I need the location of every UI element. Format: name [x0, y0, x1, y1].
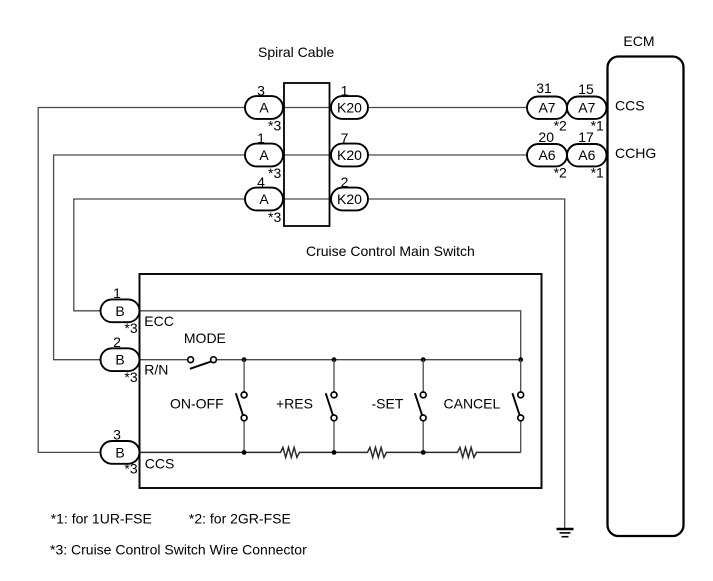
- connector K20 pin2: [331, 188, 368, 211]
- connector K20 pin7: [331, 144, 368, 167]
- svg-text:A: A: [259, 191, 269, 207]
- svg-text:17: 17: [578, 129, 594, 145]
- junction dot CCS col1: [242, 450, 247, 455]
- junction dot R/N col2: [332, 357, 337, 362]
- junction dot R/N col1: [242, 357, 247, 362]
- svg-text:*1: *1: [591, 165, 604, 181]
- svg-text:CCHG: CCHG: [615, 145, 656, 161]
- svg-text:15: 15: [578, 81, 594, 97]
- svg-text:2: 2: [341, 174, 349, 190]
- svg-text:CCS: CCS: [145, 456, 175, 472]
- svg-text:*3: *3: [268, 118, 281, 134]
- svg-text:*1: for 1UR-FSE: *1: for 1UR-FSE: [51, 511, 152, 527]
- ECM box: [608, 57, 684, 537]
- svg-text:Spiral Cable: Spiral Cable: [258, 44, 334, 60]
- svg-text:*2: *2: [554, 165, 567, 181]
- svg-text:31: 31: [536, 80, 552, 96]
- connector A6 pin17 (1UR): [567, 144, 607, 166]
- svg-text:A: A: [259, 100, 269, 116]
- svg-text:*2: for 2GR-FSE: *2: for 2GR-FSE: [189, 511, 291, 527]
- svg-text:3: 3: [113, 427, 121, 443]
- connector K20 pin1: [331, 96, 368, 119]
- svg-text:A6: A6: [578, 147, 595, 163]
- wire: row2 through spiral cable: [283, 154, 331, 156]
- svg-text:*3: *3: [124, 461, 137, 477]
- svg-text:*3: *3: [268, 209, 281, 225]
- svg-text:1: 1: [113, 285, 121, 301]
- wire: R/N net from B pin2 to MODE switch: [140, 359, 188, 361]
- wire: K20 pin2 to ground: [368, 199, 565, 528]
- wire: R/N net from MODE switch to cancel column: [216, 359, 520, 361]
- svg-text:B: B: [115, 303, 124, 319]
- wire: spiral A pin3 to switch B pin3 (left outer L): [38, 108, 245, 453]
- svg-text:1: 1: [257, 130, 265, 146]
- svg-text:R/N: R/N: [144, 362, 168, 378]
- connector A6 pin20 (2GR): [527, 144, 567, 166]
- svg-text:*3: *3: [124, 320, 137, 336]
- svg-text:A7: A7: [578, 100, 595, 116]
- svg-text:*3: Cruise Control Switch Wire: *3: Cruise Control Switch Wire Connector: [50, 542, 307, 558]
- svg-text:A7: A7: [538, 100, 555, 116]
- svg-text:Cruise Control Main Switch: Cruise Control Main Switch: [306, 243, 475, 259]
- junction dot R/N cancel column: [518, 357, 523, 362]
- wire: CCS bottom rail with resistors: [140, 447, 521, 457]
- svg-text:*2: *2: [554, 117, 567, 133]
- connector B pin1 (ECC): [101, 299, 140, 322]
- wire: ECC net from B pin1 to cancel column: [140, 311, 521, 360]
- svg-text:7: 7: [341, 130, 349, 146]
- svg-text:-SET: -SET: [372, 395, 404, 411]
- connector B pin2 (R/N): [101, 348, 140, 371]
- connector A7 pin31 (2GR): [527, 97, 567, 119]
- connector A7 pin15 (1UR): [567, 97, 607, 119]
- svg-text:20: 20: [538, 129, 554, 145]
- svg-text:B: B: [115, 352, 124, 368]
- svg-text:K20: K20: [337, 100, 362, 116]
- connector A pin4 (spiral row3): [245, 188, 283, 211]
- junction dot R/N col3: [421, 357, 426, 362]
- wire: row1 through spiral cable: [283, 107, 331, 109]
- svg-text:A: A: [259, 147, 269, 163]
- svg-text:CANCEL: CANCEL: [444, 395, 501, 411]
- svg-text:*3: *3: [268, 165, 281, 181]
- svg-text:MODE: MODE: [184, 330, 226, 346]
- wire: spiral A pin4 to switch B pin1 (left inner L): [74, 199, 245, 311]
- wire: row3 through spiral cable: [283, 198, 331, 200]
- svg-text:+RES: +RES: [276, 395, 313, 411]
- wire: spiral A pin1 to switch B pin2 (left middle L): [54, 155, 245, 360]
- svg-text:2: 2: [113, 334, 121, 350]
- svg-text:4: 4: [257, 174, 265, 190]
- svg-text:*3: *3: [124, 369, 137, 385]
- svg-text:A6: A6: [538, 147, 555, 163]
- wire: K20 pin7 to ECM A6 (CCHG): [368, 154, 527, 156]
- svg-text:ECM: ECM: [623, 33, 654, 49]
- svg-text:K20: K20: [337, 191, 362, 207]
- connector B pin3 (CCS): [101, 441, 140, 464]
- junction dot CCS col3: [421, 450, 426, 455]
- svg-text:CCS: CCS: [615, 98, 645, 114]
- svg-text:K20: K20: [337, 147, 362, 163]
- ground: [557, 528, 574, 531]
- svg-text:ECC: ECC: [144, 313, 174, 329]
- svg-text:3: 3: [257, 83, 265, 99]
- wire: K20 pin1 to ECM A7 (CCS): [368, 107, 527, 109]
- connector A pin1 (spiral row2): [245, 144, 283, 167]
- connector A pin3 (spiral row1): [245, 96, 283, 119]
- spiral cable box: [284, 83, 330, 226]
- svg-text:1: 1: [341, 83, 349, 99]
- svg-text:ON-OFF: ON-OFF: [170, 395, 224, 411]
- switch box: Cruise Control Main Switch outline: [140, 274, 542, 488]
- svg-text:B: B: [115, 444, 124, 460]
- junction dot CCS col2: [332, 450, 337, 455]
